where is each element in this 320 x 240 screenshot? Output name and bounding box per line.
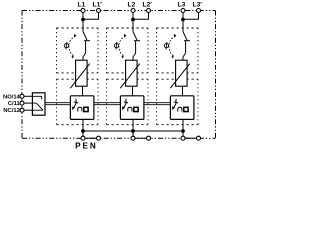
wire: bus to PEN terminal module 2 [132, 131, 134, 138]
svg-text:NO/14: NO/14 [3, 94, 21, 100]
wire: NO/14 stub [22, 95, 32, 97]
terminal L1 [81, 9, 85, 13]
dashed outline: base part module 2 (lower) [107, 79, 149, 125]
terminal L2 [131, 9, 135, 13]
spark gap icon: electrode arch module 3 [178, 107, 182, 111]
wire: unit box to PEN bus module 1 [82, 119, 84, 131]
wire: terminal L3' down and over to node [183, 12, 199, 19]
junction node L1 [81, 18, 85, 22]
wire: NC/12 stub [22, 109, 32, 111]
wire: unit box to PEN bus module 3 [182, 119, 184, 131]
wire: terminal L1' down and over to node [83, 12, 99, 19]
terminal PEN (module 1 right) [97, 136, 101, 140]
svg-text:C/11: C/11 [8, 101, 21, 107]
terminal L3' [197, 9, 201, 13]
svg-text:L3′: L3′ [193, 1, 203, 8]
terminal L2' [147, 9, 151, 13]
terminal NO/14 [20, 94, 24, 98]
thermal disconnector switch module 2 [133, 32, 140, 61]
wire: node to disconnector 3 [182, 20, 184, 32]
thermal disconnector switch module 1 [83, 32, 90, 61]
wire: terminal L2 down to node [132, 12, 134, 19]
wire: PEN terminal pair link module 3 [183, 137, 199, 139]
junction node L2 [131, 18, 135, 22]
terminal NC/12 [20, 108, 24, 112]
wire: varistor to spark gap unit module 1 [82, 86, 84, 96]
dashed outline: base part module 3 (lower) [157, 79, 199, 125]
wire: unit box to PEN bus module 2 [132, 119, 134, 131]
wire: PEN terminal pair link module 2 [133, 137, 149, 139]
varistor diagonal module 1 [70, 64, 90, 89]
thermal disconnector switch module 3 [183, 32, 190, 61]
thermal sensing symbol module 2 [114, 42, 118, 50]
terminal PEN (module 3 left) [181, 136, 185, 140]
terminal L3 [181, 9, 185, 13]
spark gap icon: electrode block module 1 [84, 107, 88, 111]
wire: terminal L2' down and over to node [133, 12, 149, 19]
changeover contact: NC fixed contact [32, 109, 43, 111]
remote signalling contact box FM [32, 93, 45, 115]
wire: node to disconnector 1 [82, 20, 84, 32]
terminal L1' [97, 9, 101, 13]
terminal PEN (module 3 right) [197, 136, 201, 140]
wire: C/11 stub [22, 102, 32, 104]
svg-text:NC/12: NC/12 [3, 108, 19, 114]
thermal sensing symbol module 1 [64, 42, 68, 50]
wire: node to disconnector 2 [132, 20, 134, 32]
wire: PEN terminal pair link module 1 [83, 137, 99, 139]
wire: bus to PEN terminal module 3 [182, 131, 184, 138]
terminal C/11 [20, 101, 24, 105]
junction node on PEN bus module 1 [81, 129, 85, 133]
thermal sensing symbol module 3 [164, 42, 168, 50]
wire: terminal L1 down to node [82, 12, 84, 19]
spark gap icon: electrode block module 2 [134, 107, 138, 111]
junction node on PEN bus module 3 [181, 129, 185, 133]
PEN bus wire [83, 130, 183, 132]
dashed outline: base part module 1 (lower) [57, 79, 99, 125]
spark gap icon: lightning arrow module 2 [124, 99, 128, 108]
varistor module 2 [126, 60, 138, 86]
svg-text:L2: L2 [128, 1, 136, 8]
terminal PEN (module 2 right) [147, 136, 151, 140]
dashed outline: protection module 1 (upper) [57, 28, 99, 73]
changeover contact: common pole [32, 102, 36, 104]
spark gap arrester unit box module 3 [170, 96, 194, 120]
spark gap arrester unit box module 2 [120, 96, 143, 120]
spark gap icon: electrode arch module 2 [128, 107, 132, 111]
junction node on PEN bus module 2 [131, 129, 135, 133]
dashed outline: protection module 2 (upper) [107, 28, 149, 73]
dashed outline: protection module 3 (upper) [157, 28, 199, 73]
changeover contact: NO fixed contact [32, 96, 41, 99]
dashed actuation arc module 3 [169, 36, 176, 56]
junction node L3 [181, 18, 185, 22]
spark gap arrester unit box module 1 [70, 96, 94, 120]
terminal PEN (module 1 left) [81, 136, 85, 140]
varistor diagonal module 3 [170, 64, 190, 89]
enclosure border (dash-dot-dot chain line) [22, 11, 216, 139]
varistor module 3 [176, 60, 188, 86]
wire: bus to PEN terminal module 1 [82, 131, 84, 138]
spark gap icon: lightning arrow module 3 [174, 99, 178, 108]
terminal PEN (module 2 left) [131, 136, 135, 140]
varistor module 1 [76, 60, 88, 86]
wire: varistor to spark gap unit module 2 [132, 86, 134, 96]
wire: varistor to spark gap unit module 3 [182, 86, 184, 96]
svg-text:L3: L3 [178, 1, 186, 8]
varistor diagonal module 2 [120, 64, 140, 89]
spark gap icon: electrode block module 3 [184, 107, 188, 111]
wire: terminal L3 down to node [182, 12, 184, 19]
changeover contact: blade [36, 103, 43, 110]
svg-text:L1′: L1′ [93, 1, 103, 8]
mechanical linkage double line [45, 103, 170, 105]
spark gap icon: lightning arrow module 1 [74, 99, 78, 108]
spark gap icon: electrode arch module 1 [78, 107, 82, 111]
svg-text:PEN: PEN [75, 142, 98, 151]
dashed actuation arc module 2 [119, 36, 126, 56]
svg-text:L1: L1 [78, 1, 86, 8]
dashed actuation arc module 1 [69, 36, 76, 56]
svg-text:L2′: L2′ [143, 1, 153, 8]
